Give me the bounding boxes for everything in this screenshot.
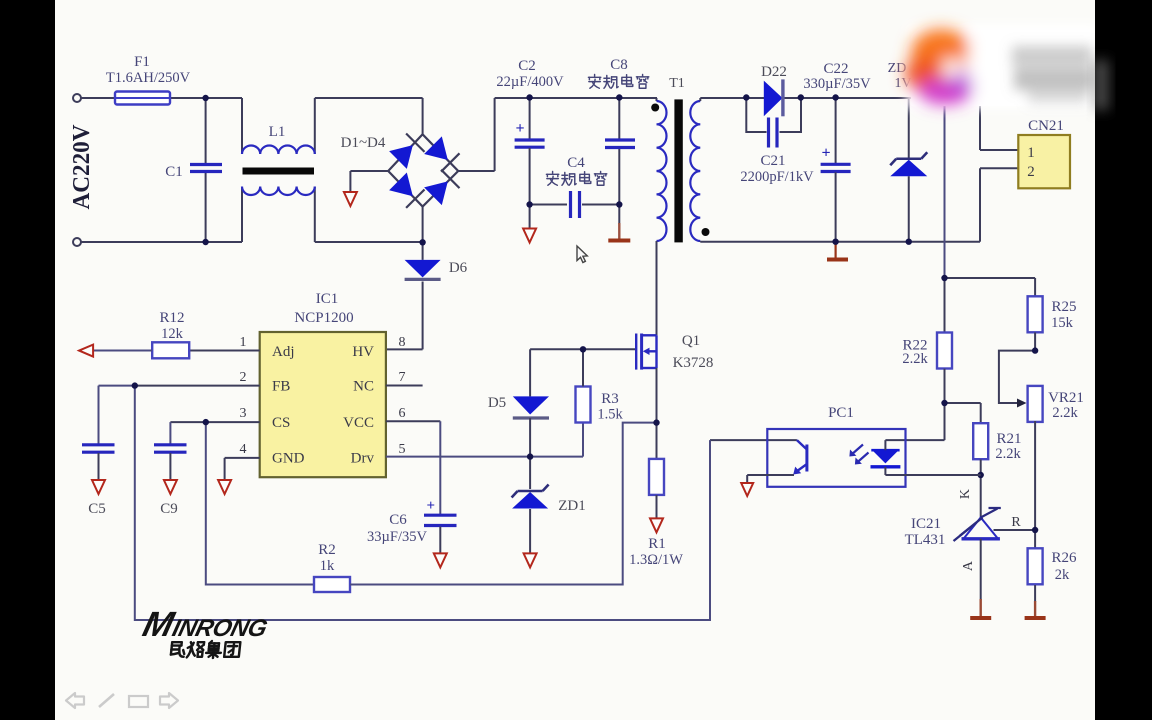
svg-text:6: 6 (399, 406, 406, 421)
svg-text:Drv: Drv (351, 451, 375, 467)
svg-text:R26: R26 (1051, 550, 1077, 566)
svg-text:R3: R3 (601, 391, 619, 407)
svg-text:1: 1 (1027, 145, 1035, 161)
svg-text:C2: C2 (518, 58, 536, 74)
svg-text:C21: C21 (760, 153, 785, 169)
svg-text:AC220V: AC220V (69, 124, 95, 210)
svg-text:D22: D22 (761, 64, 787, 80)
svg-text:R25: R25 (1051, 299, 1076, 315)
svg-text:D5: D5 (488, 395, 506, 411)
svg-text:2.2k: 2.2k (902, 351, 928, 367)
svg-text:2: 2 (1027, 164, 1035, 180)
svg-text:CN21: CN21 (1028, 118, 1064, 134)
svg-text:R2: R2 (318, 542, 336, 558)
svg-text:T1: T1 (669, 76, 685, 91)
svg-text:ZD1: ZD1 (558, 498, 586, 514)
svg-text:7: 7 (399, 370, 406, 385)
svg-text:Adj: Adj (272, 344, 295, 360)
svg-text:2.2k: 2.2k (1052, 405, 1078, 421)
svg-text:C1: C1 (165, 164, 183, 180)
svg-text:VR21: VR21 (1048, 390, 1084, 406)
svg-text:C5: C5 (88, 501, 106, 517)
svg-text:FB: FB (272, 379, 290, 395)
svg-text:INRONG: INRONG (170, 615, 271, 642)
svg-text:5: 5 (399, 442, 406, 457)
svg-text:3: 3 (240, 406, 247, 421)
svg-text:GND: GND (272, 451, 305, 467)
svg-text:4: 4 (240, 442, 247, 457)
svg-text:IC1: IC1 (316, 291, 339, 307)
svg-text:22µF/400V: 22µF/400V (496, 74, 564, 90)
svg-text:F1: F1 (134, 54, 150, 70)
svg-text:C8: C8 (610, 57, 628, 73)
svg-text:D6: D6 (449, 260, 468, 276)
svg-text:2.2k: 2.2k (995, 446, 1021, 462)
svg-text:C6: C6 (389, 512, 407, 528)
svg-text:D1~D4: D1~D4 (341, 135, 386, 151)
svg-text:+: + (427, 498, 436, 514)
svg-text:1.3Ω/1W: 1.3Ω/1W (629, 552, 683, 568)
svg-text:1: 1 (240, 335, 247, 350)
svg-text:CS: CS (272, 415, 290, 431)
svg-text:TL431: TL431 (905, 532, 946, 548)
svg-text:12k: 12k (161, 326, 184, 342)
svg-text:K3728: K3728 (673, 355, 714, 371)
svg-text:R1: R1 (648, 536, 666, 552)
svg-text:R12: R12 (159, 310, 184, 326)
svg-text:2: 2 (240, 370, 247, 385)
svg-text:NCP1200: NCP1200 (294, 310, 353, 326)
svg-text:8: 8 (399, 335, 406, 350)
svg-text:+: + (516, 120, 525, 137)
svg-text:VCC: VCC (343, 415, 374, 431)
svg-text:2k: 2k (1055, 567, 1070, 583)
svg-text:IC21: IC21 (911, 516, 941, 532)
svg-text:+: + (822, 144, 831, 161)
svg-text:330µF/35V: 330µF/35V (803, 76, 871, 92)
svg-text:C4: C4 (567, 155, 585, 171)
svg-text:33µF/35V: 33µF/35V (367, 529, 427, 545)
svg-text:15k: 15k (1051, 315, 1074, 331)
svg-text:K: K (958, 489, 973, 499)
svg-text:ZD: ZD (888, 61, 907, 76)
svg-text:PC1: PC1 (828, 405, 854, 421)
svg-text:1.5k: 1.5k (597, 407, 623, 423)
svg-text:C9: C9 (160, 501, 178, 517)
svg-text:R21: R21 (996, 431, 1021, 447)
svg-text:C22: C22 (823, 61, 848, 77)
svg-text:Q1: Q1 (682, 333, 700, 349)
svg-text:HV: HV (352, 344, 374, 360)
svg-text:1k: 1k (320, 558, 335, 574)
svg-text:R: R (1011, 515, 1021, 530)
svg-text:L1: L1 (269, 124, 286, 140)
svg-text:NC: NC (353, 379, 374, 395)
svg-text:A: A (961, 560, 976, 571)
svg-text:2200pF/1kV: 2200pF/1kV (740, 169, 814, 185)
svg-text:T1.6AH/250V: T1.6AH/250V (106, 70, 191, 86)
